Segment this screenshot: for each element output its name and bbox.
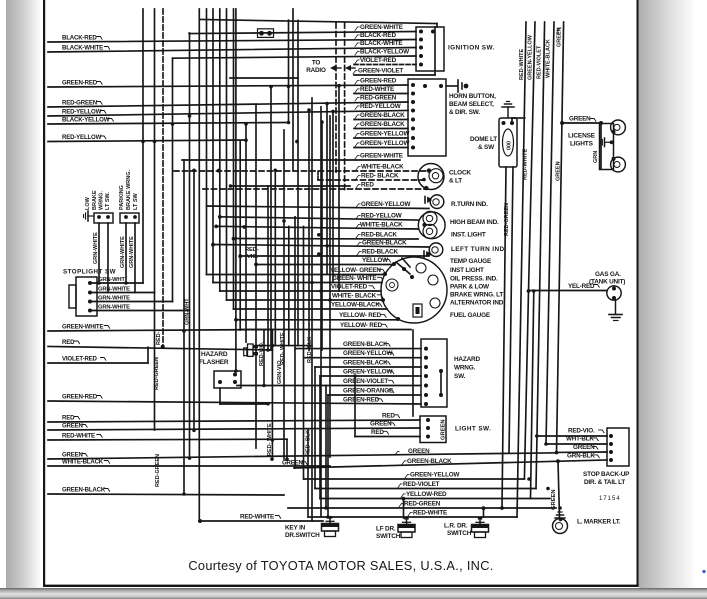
horn button / beam select / dir switch connector box [408, 79, 446, 156]
wire H fuse bus [189, 32, 416, 34]
junction flasher pin2 [233, 373, 237, 377]
wire V-213 [212, 9, 214, 283]
svg-text:PARK & LOW: PARK & LOW [450, 284, 490, 291]
wire lowbrake drop1 [98, 223, 100, 283]
wire bus GREEN-YELLOW [304, 478, 524, 480]
svg-text:CLOCK: CLOCK [449, 170, 471, 177]
wire cluster VIOLET-RED [220, 290, 381, 292]
svg-text:YELLOW-RED: YELLOW-RED [406, 491, 447, 498]
svg-text:FUEL GAUGE: FUEL GAUGE [450, 312, 491, 319]
wire V-284 [283, 130, 285, 459]
hazard flasher box [214, 371, 241, 388]
junction license pin2 [612, 157, 616, 161]
wire hazard GREEN-VIOLET [237, 385, 421, 387]
svg-text:GREEN-RED: GREEN-RED [343, 396, 380, 403]
svg-text:YELLOW- RED: YELLOW- RED [339, 312, 382, 319]
junction stopbox pin [609, 442, 613, 446]
svg-text:RED-WHITE: RED-WHITE [240, 513, 274, 520]
wire left RED-YELLOW [48, 111, 408, 117]
junction horn pin [411, 118, 415, 122]
wire horn GREEN-WHITE row [182, 159, 400, 161]
wire GREEN-BLACK lt [213, 245, 429, 248]
wire V-272 [271, 330, 273, 460]
wire hazard GREEN-ORANGE [328, 394, 421, 396]
wire license drop [600, 123, 602, 169]
junction hazard pin r2 [439, 393, 443, 397]
junction j16d [192, 429, 196, 433]
wire horn GREEN-BLACK [354, 119, 408, 121]
junction j16e [192, 169, 196, 173]
junction flasher out j [266, 402, 270, 406]
svg-text:GREEN-YELLOW: GREEN-YELLOW [360, 130, 410, 137]
svg-text:LT SW.: LT SW. [105, 192, 111, 210]
junction j28 [244, 138, 248, 142]
wire left RED [48, 347, 272, 351]
junction ign pin [419, 30, 423, 34]
wire V-327 [326, 104, 328, 275]
junction hazard pin [424, 393, 428, 397]
junction cascade j5 [234, 318, 238, 322]
svg-text:RED- BLACK: RED- BLACK [361, 172, 399, 179]
svg-text:GRN-BLK: GRN-BLK [567, 453, 595, 460]
svg-text:BLACK-YELLOW: BLACK-YELLOW [62, 116, 110, 123]
wire lf stub [403, 499, 405, 519]
svg-text:RED-GREEN: RED-GREEN [504, 203, 510, 236]
wire cluster YELLOW [256, 264, 394, 266]
svg-text:RED- BLK: RED- BLK [306, 430, 312, 456]
wire lowbrake drop2 [107, 223, 109, 293]
svg-text:GREEN-YELLOW: GREEN-YELLOW [360, 140, 410, 147]
svg-text:BRAKE WRNG.: BRAKE WRNG. [126, 170, 132, 210]
svg-text:RED-YELLOW: RED-YELLOW [62, 108, 102, 115]
junction dome pin1 [502, 121, 506, 125]
svg-text:GREEN-YELLOW: GREEN-YELLOW [528, 34, 534, 80]
svg-text:GREEN-BLACK: GREEN-BLACK [360, 121, 405, 128]
svg-text:BLACK-RED: BLACK-RED [360, 32, 396, 39]
wire V-256 [255, 104, 257, 448]
junction cascade j6 [238, 254, 242, 258]
wire stopbox WHT-BLK [546, 443, 607, 445]
wire dash riser [317, 172, 319, 181]
dome bulb [503, 129, 514, 156]
wire cluster YELLOW-BLACK [234, 308, 388, 310]
svg-text:RED-VIO.: RED-VIO. [259, 341, 265, 366]
wire horn RED-WHITE [354, 93, 408, 95]
svg-text:HAZARD: HAZARD [201, 351, 228, 358]
wire left GREEN-RED [48, 85, 408, 87]
wire V-344 dashed radio feed [344, 23, 346, 190]
junction ign pin top [431, 30, 435, 34]
wire clock RED- BLACK [318, 179, 423, 181]
svg-text:INST. LIGHT: INST. LIGHT [451, 232, 486, 239]
wire RB3 red-violet [536, 22, 545, 489]
junction j7 [171, 122, 175, 126]
svg-text:BLACK-YELLOW: BLACK-YELLOW [360, 48, 409, 55]
junction cascade j4 [232, 237, 236, 241]
svg-text:17154: 17154 [599, 496, 621, 502]
svg-text:SWITCH: SWITCH [447, 530, 472, 537]
wire horn GREEN-BLACK [354, 128, 408, 130]
wire RB1 red-white [517, 22, 526, 517]
wire hazard GREEN-BLACK [295, 348, 421, 350]
wire flasher out [220, 403, 268, 405]
svg-text:000: 000 [507, 141, 513, 150]
svg-text:RED-BLACK: RED-BLACK [362, 248, 398, 255]
wire stoplight GRN-WHT [90, 282, 143, 284]
junction horn pin [411, 100, 415, 104]
junction horn conn A [423, 84, 427, 88]
junction hazard pin [424, 365, 428, 369]
svg-text:GRN-WHITE: GRN-WHITE [98, 286, 130, 292]
wire left WHITE-BLACK [48, 465, 330, 467]
junction j16b [182, 492, 186, 496]
svg-text:RED-GREEN: RED-GREEN [404, 500, 441, 507]
svg-text:RED-WHITE: RED-WHITE [62, 432, 95, 439]
svg-text:RED-YELLOW: RED-YELLOW [62, 134, 102, 141]
wire V-140 [142, 9, 144, 283]
junction ign pin [419, 63, 423, 67]
left marker light [553, 519, 568, 534]
svg-text:WHITE- BLACK: WHITE- BLACK [332, 292, 377, 299]
ground at low brake switch [88, 215, 94, 217]
junction lf j [402, 497, 406, 501]
svg-text:PARKING: PARKING [119, 185, 125, 210]
svg-text:& SW: & SW [478, 144, 495, 151]
wire horn GREEN-VIOLET [354, 74, 435, 76]
junction horn pin [411, 127, 415, 131]
junction j29 [325, 102, 329, 106]
svg-text:WRNG.: WRNG. [454, 365, 476, 372]
svg-text:GREEN-BLACK: GREEN-BLACK [62, 486, 106, 493]
wire bus RED-GREEN [288, 507, 556, 509]
wire dome riser [512, 117, 525, 119]
wire V-413 [412, 330, 414, 416]
junction v272 lands green bus [270, 457, 274, 461]
svg-text:RED-WHITE: RED-WHITE [413, 509, 447, 516]
wire V-176 [172, 58, 174, 301]
junction j8 [141, 140, 145, 144]
svg-text:RED- WHITE: RED- WHITE [280, 332, 286, 365]
svg-text:HAZARD: HAZARD [454, 356, 480, 363]
junction lamp j2 [242, 225, 246, 229]
wire V-289b [288, 227, 290, 346]
svg-text:RED: RED [361, 181, 374, 188]
svg-text:GREEN: GREEN [569, 116, 591, 123]
wire RB6 dome red-green [502, 167, 506, 508]
svg-text:RED-WHITE: RED-WHITE [523, 149, 529, 180]
svg-text:VIOLET-RED: VIOLET-RED [360, 57, 397, 64]
wire hazard GREEN-BLACK [315, 366, 421, 368]
svg-text:GREEN-RED: GREEN-RED [62, 393, 98, 400]
wire V-233 [233, 9, 235, 309]
svg-text:GRN-WHITE: GRN-WHITE [120, 236, 126, 268]
junction red-green lands on bus [500, 506, 504, 510]
junction stopbox pin [609, 434, 613, 438]
junction j22 [353, 374, 357, 378]
svg-text:RED: RED [62, 414, 75, 421]
wire V-321 [320, 107, 322, 516]
clock & light [418, 164, 444, 190]
wire ign VIOLET-RED [354, 64, 416, 66]
junction red-white drop j [285, 457, 289, 461]
junction lightsw pin [426, 426, 430, 430]
junction parkbrake pin1 [124, 215, 128, 219]
junction stopbox pin [609, 450, 613, 454]
svg-text:Courtesy of TOYOTA MOTOR SALES: Courtesy of TOYOTA MOTOR SALES, U.S.A., … [188, 558, 493, 573]
junction j9 [153, 140, 157, 144]
junction hazard pin r1 [439, 369, 443, 373]
left front door switch [404, 517, 408, 520]
junction j10 [234, 369, 238, 373]
wire left BLACK-RED [48, 40, 416, 43]
wire H ignition top drop [436, 24, 438, 28]
wire left GREEN-RED [48, 401, 421, 404]
junction stopbox T1 [535, 434, 539, 438]
wire V-271 [270, 86, 272, 350]
svg-text:WHITE-BLACK: WHITE-BLACK [360, 221, 403, 228]
svg-text:VIOLET-RED: VIOLET-RED [331, 283, 368, 290]
junction gas tap [527, 289, 531, 293]
svg-text:GAS GA.: GAS GA. [595, 271, 621, 278]
junction j20 [527, 477, 531, 481]
junction hazard pin [424, 384, 428, 388]
wire flasher drop [219, 388, 221, 404]
wire V-219 [219, 9, 221, 291]
wire bus RED-WHITE [308, 516, 517, 518]
ground below gas unit [615, 300, 617, 314]
svg-text:IGNITION SW.: IGNITION SW. [448, 45, 495, 52]
wire violet-red riser [147, 347, 149, 363]
junction rturn conn [428, 198, 432, 202]
junction gas pin bot [612, 296, 616, 300]
wire clock WHITE-BLACK [174, 170, 428, 172]
svg-text:YELLOW- GREEN: YELLOW- GREEN [330, 267, 381, 274]
junction j17 [310, 281, 314, 285]
junction j31 [337, 84, 341, 88]
right page-edge gradient [639, 0, 695, 593]
junction lamp j1 [214, 225, 218, 229]
junction j3 [229, 184, 233, 188]
wire stopbox GREEN row [557, 451, 608, 453]
svg-text:HORN BUTTON,: HORN BUTTON, [449, 93, 496, 100]
svg-text:RED-BLACK: RED-BLACK [361, 231, 397, 238]
left page-edge gradient [6, 0, 40, 599]
junction rb2b j [532, 289, 536, 293]
svg-text:INST LIGHT: INST LIGHT [450, 267, 484, 274]
wire hazard GREEN-YELLOW [320, 375, 421, 377]
junction j parkbrake1 [124, 281, 128, 285]
wire cluster WHITE- BLACK [227, 299, 384, 301]
svg-text:GRN-WHITE: GRN-WHITE [129, 236, 135, 268]
wire bus YELLOW-RED [320, 498, 550, 500]
junction horn pin [411, 136, 415, 140]
junction j lowbrake1 [97, 281, 101, 285]
wire H-186 link [231, 185, 351, 187]
wire V-312 [311, 98, 313, 521]
wire V-294 [294, 217, 296, 468]
wire bus RED-VIOLET [315, 488, 536, 490]
svg-text:KEY IN: KEY IN [285, 525, 306, 532]
svg-text:RED-GREEN: RED-GREEN [360, 94, 397, 101]
wire left RED-GREEN [48, 102, 408, 107]
wire V-309 [308, 110, 310, 350]
blue speck artifact [702, 570, 705, 573]
gas tank unit [607, 286, 621, 300]
svg-text:GREEN: GREEN [573, 444, 595, 451]
svg-text:GREEN- WHITE: GREEN- WHITE [332, 275, 376, 282]
svg-text:STOP BACK-UP: STOP BACK-UP [583, 471, 630, 478]
svg-text:GREEN: GREEN [62, 422, 83, 429]
svg-text:TO: TO [312, 60, 321, 67]
svg-text:LEFT TURN IND.: LEFT TURN IND. [451, 246, 507, 253]
wire RB2 green-yellow upper [529, 22, 536, 291]
junction j1b [274, 169, 278, 173]
svg-text:RED-GREEN: RED-GREEN [154, 357, 160, 390]
junction fuse end2 [267, 31, 272, 36]
svg-text:BRAKE WRNG. LT: BRAKE WRNG. LT [450, 292, 503, 299]
svg-text:DIR. & TAIL LT: DIR. & TAIL LT [584, 479, 625, 486]
svg-text:GRN-WHITE: GRN-WHITE [98, 295, 130, 301]
ground above dome light [507, 107, 509, 117]
svg-text:GRN-WHT: GRN-WHT [98, 277, 125, 283]
junction j22b [324, 506, 328, 510]
wire V-315 [314, 367, 316, 489]
svg-text:TEMP GAUGE: TEMP GAUGE [450, 258, 492, 265]
page border right [637, 0, 639, 586]
junction j14 [317, 252, 321, 256]
junction j18 [319, 289, 323, 293]
wire V-330 [329, 116, 331, 457]
wire GREEN-YELLOW r-turn [207, 206, 430, 209]
svg-text:YEL-RED: YEL-RED [568, 283, 595, 290]
wire lamp WHITE-BLACK [216, 226, 418, 229]
svg-text:RED-WHITE: RED-WHITE [360, 86, 394, 93]
wire V-326 [325, 386, 327, 509]
svg-text:GREEN-RED: GREEN-RED [62, 79, 98, 86]
wire parkbrake drop2 [134, 223, 136, 293]
junction plug out j [271, 344, 275, 348]
svg-text:OIL PRESS. IND.: OIL PRESS. IND. [450, 276, 498, 283]
junction cascade j1 [254, 263, 258, 267]
wire stoplight GRN-WHITE [90, 310, 190, 312]
svg-text:GREEN: GREEN [282, 460, 303, 467]
svg-text:RED- BLK: RED- BLK [307, 337, 313, 363]
svg-text:ALTERNATOR IND: ALTERNATOR IND [450, 300, 504, 307]
svg-text:LICENSE: LICENSE [568, 133, 596, 140]
svg-text:VIOLET-RED: VIOLET-RED [62, 355, 98, 362]
junction j19 [328, 298, 332, 302]
junction j21 [546, 487, 550, 491]
svg-text:GREEN-WHITE: GREEN-WHITE [360, 152, 403, 159]
junction license j1 [560, 121, 564, 125]
wire V-336 dashed radio feed [335, 23, 337, 172]
junction stoplight pin [88, 291, 92, 295]
svg-text:SWITCH: SWITCH [376, 533, 401, 540]
svg-text:HIGH BEAM IND.: HIGH BEAM IND. [450, 219, 499, 226]
junction cascade j2 [211, 243, 215, 247]
svg-text:BLACK-WHITE: BLACK-WHITE [360, 40, 402, 47]
wire RB7 dome second pin [509, 167, 513, 453]
wire stoplight GRN-WHITE [90, 292, 155, 294]
junction j23 [558, 506, 562, 510]
junction cluster j1 [402, 267, 406, 271]
wire V-240 [239, 142, 241, 331]
junction j11 [262, 384, 266, 388]
junction cluster pin c [381, 298, 385, 302]
svg-text:YELLOW: YELLOW [362, 257, 388, 264]
wire left RED-WHITE [48, 438, 287, 441]
junction j1 [217, 169, 221, 173]
svg-text:GREEN: GREEN [441, 419, 447, 440]
wire cluster YELLOW- GREEN [207, 274, 386, 276]
svg-text:RED: RED [62, 339, 75, 346]
junction lightsw pin [426, 418, 430, 422]
junction lr j [482, 506, 486, 510]
svg-text:RED-GREEN: RED-GREEN [62, 99, 97, 106]
wire V-226 [226, 9, 228, 300]
svg-text:GREEN-VIOLET: GREEN-VIOLET [358, 67, 403, 74]
svg-text:GREEN-BLACK: GREEN-BLACK [360, 112, 405, 119]
junction lightsw pin [426, 435, 430, 439]
junction j13 [325, 244, 329, 248]
svg-text:GREEN-BLACK: GREEN-BLACK [343, 359, 388, 366]
svg-text:GRN-WHT: GRN-WHT [185, 298, 191, 325]
wire black-yellow feed [173, 56, 417, 58]
wire V-304 [303, 227, 305, 480]
junction ign pin [419, 38, 423, 42]
junction lowbrake pin1 [97, 215, 101, 219]
svg-text:GRN: GRN [593, 151, 599, 163]
junction cluster pin d [396, 317, 400, 321]
junction dash-red j [161, 345, 165, 349]
svg-text:DR.SWITCH: DR.SWITCH [285, 532, 320, 539]
high beam / inst light lamp pair [418, 212, 445, 239]
junction j15b [266, 348, 270, 352]
svg-text:WHT-BLK: WHT-BLK [566, 436, 594, 443]
junction j6 [188, 114, 192, 118]
wire parkbrake drop1 [125, 223, 127, 283]
svg-text:GREEN: GREEN [408, 448, 430, 455]
svg-text:& LT: & LT [449, 178, 462, 185]
junction j5 [287, 85, 291, 89]
wire key red-white [200, 520, 323, 522]
junction flasher pin1 [218, 380, 222, 384]
svg-text:L. MARKER LT.: L. MARKER LT. [577, 519, 621, 526]
svg-text:GRN-WHITE: GRN-WHITE [98, 304, 130, 310]
wire left RED [48, 420, 420, 422]
junction license pin1 [612, 130, 616, 134]
wire RB2 green-yellow lower [524, 291, 528, 479]
wire V-333 [332, 112, 334, 283]
wire V-328 [327, 395, 329, 517]
wire horn GREEN-YELLOW [354, 137, 408, 139]
junction dome pin2 [510, 121, 514, 125]
right turn indicator [430, 195, 444, 209]
wire dome riser2 [511, 118, 513, 123]
junction parkbrake pin2 [133, 215, 137, 219]
wire V-235 [235, 9, 237, 371]
svg-text:GREEN: GREEN [556, 161, 562, 181]
wire H-top feed [200, 20, 437, 24]
junction marker tap [556, 459, 560, 463]
svg-text:WRNG.: WRNG. [99, 191, 105, 210]
wire stoplight GRN-WHITE [90, 301, 173, 303]
junction fuse end1 [259, 31, 264, 36]
svg-text:BLACK-RED: BLACK-RED [62, 34, 97, 41]
wire V-275 [274, 170, 276, 345]
svg-text:GREEN-RED: GREEN-RED [360, 77, 397, 84]
wire V-246 [245, 124, 247, 342]
